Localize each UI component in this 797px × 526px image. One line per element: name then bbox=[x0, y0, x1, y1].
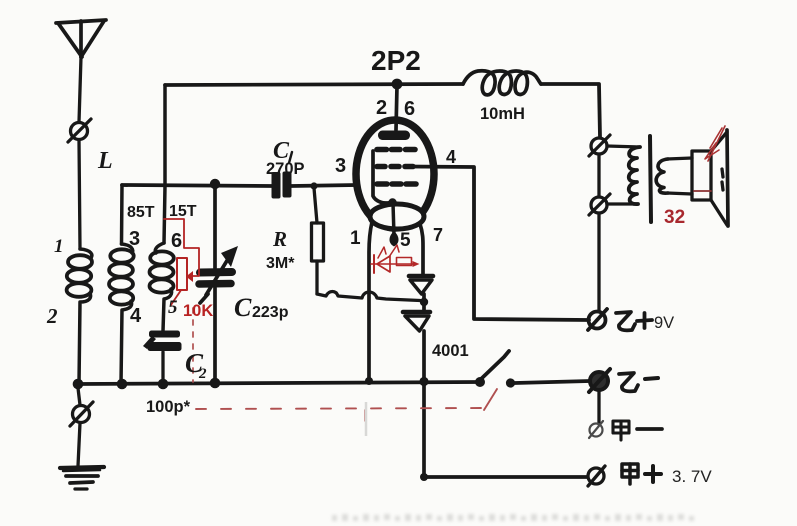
svg-text:C: C bbox=[234, 293, 252, 322]
svg-text:5: 5 bbox=[168, 297, 178, 318]
svg-text:3. 7V: 3. 7V bbox=[672, 467, 712, 486]
wire corner down to 85T coil bbox=[120, 185, 124, 244]
wire antenna lead bbox=[79, 57, 81, 122]
resistor R 3M* bbox=[312, 188, 324, 294]
tube grid left rail bbox=[373, 151, 390, 203]
svg-text:5: 5 bbox=[400, 230, 411, 251]
node junction above R bbox=[310, 182, 317, 189]
coil L (antenna coil, terminals 1-2) bbox=[67, 249, 92, 384]
wire 15T drop (from top rail crossing y185) bbox=[164, 186, 165, 243]
svg-text:270P: 270P bbox=[266, 160, 305, 178]
node diode-rail crossing bbox=[419, 377, 428, 386]
node 85T bottom junction bbox=[117, 379, 128, 390]
node between diodes bbox=[422, 294, 426, 312]
tube plate bar bbox=[378, 131, 410, 141]
connector J2 (ground jack) bbox=[70, 402, 93, 426]
svg-text:3M*: 3M* bbox=[266, 255, 295, 272]
node corner blob bbox=[420, 473, 428, 481]
wire top circle leads bbox=[607, 146, 640, 147]
transformer T1 primary top connector bbox=[589, 135, 610, 156]
glyph 乙 (B-) bbox=[619, 373, 638, 391]
svg-text:7: 7 bbox=[433, 225, 443, 245]
terminal B- (乙-) bbox=[589, 369, 610, 392]
glyph - (B-) bbox=[645, 378, 658, 379]
node pin1-rail junction bbox=[365, 377, 373, 385]
glyph 甲 (A-) bbox=[613, 421, 629, 440]
svg-text:1: 1 bbox=[350, 228, 361, 249]
terminal B+ (乙+) bbox=[588, 309, 607, 330]
diode D1 bbox=[409, 276, 433, 294]
tube U1 2P2 envelope bbox=[356, 120, 434, 228]
svg-text:4: 4 bbox=[130, 305, 142, 327]
node 15T bottom junction bbox=[158, 379, 169, 390]
diode D2 bbox=[403, 312, 430, 331]
switch S1 bbox=[475, 377, 485, 387]
svg-text:L: L bbox=[97, 148, 113, 174]
speaker magnet bbox=[692, 151, 711, 200]
svg-text:1: 1 bbox=[54, 236, 64, 257]
tube pin1 leg bbox=[369, 222, 372, 381]
terminal A+ (甲+) bbox=[588, 466, 605, 486]
antenna bbox=[56, 20, 106, 57]
watermark strip bbox=[332, 514, 694, 521]
wire bottom rail bbox=[78, 382, 480, 384]
terminal A- (甲-) bbox=[589, 421, 603, 438]
wire to ground bbox=[78, 423, 80, 466]
tube plate lead bbox=[396, 86, 397, 130]
ground bbox=[60, 467, 104, 489]
capacitor C2 plates bbox=[143, 331, 182, 352]
glyph long dash (A-) bbox=[637, 427, 662, 431]
glyph 乙 (B+) bbox=[616, 312, 635, 330]
wire grid row (y=185) bbox=[122, 185, 272, 186]
node A (bottom-left junction) bbox=[73, 379, 84, 390]
pin 5 blob bbox=[389, 231, 398, 247]
tube grid rows (dashes) bbox=[377, 150, 416, 185]
wire B- to A- bbox=[597, 391, 600, 424]
svg-text:3: 3 bbox=[129, 228, 140, 250]
wire R bottom to diode node (with hops) bbox=[317, 292, 420, 301]
wire to A+ terminal bbox=[424, 475, 587, 479]
svg-text:100p*: 100p* bbox=[146, 398, 191, 416]
node junction above tuning cap bbox=[210, 179, 220, 189]
wire C2 to bottom rail bbox=[161, 352, 164, 384]
svg-text:85T: 85T bbox=[127, 204, 155, 221]
tube cathode ellipse bbox=[370, 204, 424, 229]
wire tuning-cap drop bbox=[213, 184, 217, 268]
wire right rail (circles to B+) bbox=[597, 154, 600, 197]
speaker cone bbox=[711, 132, 727, 151]
svg-text:10K: 10K bbox=[183, 302, 213, 320]
wire left drop from top rail bbox=[163, 85, 167, 186]
svg-text:2: 2 bbox=[376, 97, 387, 119]
connector J1 (antenna jack) bbox=[68, 119, 91, 142]
svg-text:6: 6 bbox=[404, 98, 415, 120]
transformer secondary winding bbox=[656, 159, 668, 193]
svg-text:4001: 4001 bbox=[432, 342, 469, 360]
coil 85T (terminals 3-4) bbox=[109, 244, 134, 384]
svg-text:R: R bbox=[272, 227, 287, 251]
node grid-cap top (junction above tube) bbox=[392, 79, 403, 90]
wire switch to B- terminal bbox=[515, 381, 590, 383]
svg-text:2P2: 2P2 bbox=[371, 45, 421, 76]
svg-text:32: 32 bbox=[664, 207, 685, 228]
glyph 甲 (A+) bbox=[622, 464, 638, 484]
wire antenna to coil L bbox=[79, 140, 80, 249]
red mechanical-link dashes bbox=[193, 308, 497, 421]
svg-text:9V: 9V bbox=[654, 314, 674, 332]
svg-text:223p: 223p bbox=[252, 304, 289, 321]
wire pin4 to B+ bbox=[407, 167, 589, 321]
LED replacement (red) diode bbox=[371, 245, 420, 273]
svg-text:3: 3 bbox=[335, 155, 346, 177]
svg-text:2: 2 bbox=[46, 304, 58, 328]
transformer primary winding bbox=[629, 147, 640, 204]
faint smudge below rail bbox=[365, 402, 368, 436]
glyph + (A+) bbox=[645, 466, 661, 482]
wire ground lead bbox=[78, 388, 80, 405]
glyph + (B+) bbox=[637, 313, 652, 328]
potentiometer 10K (red) bbox=[164, 219, 199, 305]
svg-text:4: 4 bbox=[446, 147, 456, 167]
coil 15T (terminals 6-5) bbox=[150, 243, 174, 331]
wire choke to corner bbox=[541, 84, 600, 137]
capacitor C1 270P plates bbox=[272, 172, 292, 199]
svg-text:10mH: 10mH bbox=[480, 105, 525, 123]
tube cathode center lead bbox=[388, 198, 396, 206]
inductor 10mH choke bbox=[463, 71, 541, 95]
wire diode chain down bbox=[422, 331, 426, 477]
variable capacitor C 223p bbox=[199, 246, 238, 303]
wire secondary leads bbox=[667, 158, 692, 159]
transformer T1 primary bottom connector bbox=[589, 194, 610, 215]
transformer core bbox=[650, 136, 651, 222]
svg-text:15T: 15T bbox=[169, 203, 197, 220]
svg-text:2: 2 bbox=[198, 366, 207, 382]
svg-text:6: 6 bbox=[171, 230, 182, 252]
speaker red marks bbox=[705, 126, 725, 161]
tube pin7 leg bbox=[420, 224, 423, 276]
node tuning cap bottom junction bbox=[210, 378, 221, 389]
wire top rail bbox=[165, 84, 463, 85]
